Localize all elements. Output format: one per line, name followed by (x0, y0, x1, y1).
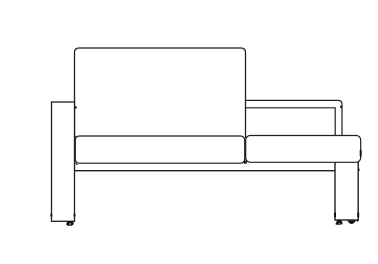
right front leg (335, 150, 358, 220)
panel left edge tick (50, 214, 52, 217)
left foot caster (66, 221, 74, 225)
left foot caster hub (69, 223, 71, 225)
right leg caster hub (339, 223, 341, 224)
right cushion right-edge tick (360, 150, 362, 157)
right leg caster (left) (335, 221, 342, 225)
panel right edge tick (74, 214, 76, 217)
right seat cushion (246, 136, 361, 163)
cushion junction blob (244, 161, 247, 164)
tick on panel right edge at armrest height (75, 106, 77, 108)
leg bottom-right corner thick mark (357, 220, 359, 222)
right leg right edge tick (357, 213, 359, 218)
left arm side panel (52, 102, 75, 221)
left seat cushion (75, 136, 244, 163)
right leg foot (right) (348, 221, 356, 224)
right armrest top bar inner edge (246, 108, 336, 137)
armrest corner tick (340, 106, 342, 108)
rail stub right of leg (358, 169, 360, 171)
sofa backrest (75, 48, 246, 138)
right armrest top bar outer edge (246, 100, 343, 137)
left cushion bottom-left tick (76, 162, 80, 165)
left cushion top-left corner comma (75, 136, 78, 139)
right leg left edge tick (334, 213, 336, 218)
frame rail bottom line (75, 170, 336, 172)
